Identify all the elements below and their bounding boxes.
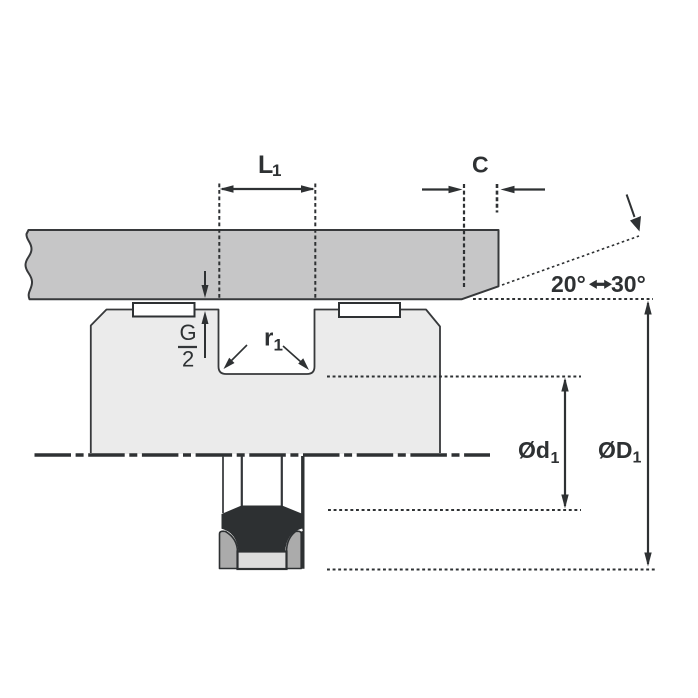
svg-text:G: G xyxy=(180,320,197,345)
C extension line right (dashed, short) xyxy=(496,184,499,213)
svg-text:L: L xyxy=(258,151,273,179)
svg-text:1: 1 xyxy=(551,450,560,467)
r1 leader arrow left (to groove bottom-left radius) xyxy=(230,345,247,362)
right back-up ring (white strip) xyxy=(339,303,400,317)
C extension line left (dashed, passes through bar) xyxy=(463,184,465,287)
r1 leader arrow right (to groove bottom-right radius) xyxy=(283,346,301,362)
svg-text:1: 1 xyxy=(274,336,283,355)
seal bore line right (thick) xyxy=(301,456,304,569)
chamfer angle dotted leader (diagonal) xyxy=(502,236,639,285)
Ød1 dimension line with arrowheads xyxy=(564,380,566,506)
seal elastomer body (dark) xyxy=(222,506,305,553)
double arrow symbol ↔ xyxy=(589,280,612,289)
anti-extrusion cap left (gray) xyxy=(220,531,238,568)
L1 dimension line with outward arrowheads xyxy=(222,188,313,190)
L1 extension line right (dashed) xyxy=(314,184,316,300)
C dimension arrows (pointing inward) xyxy=(422,188,450,190)
seal bore line left (below centerline) xyxy=(222,456,224,513)
G/2 lower arrow (pointing up at block surface) xyxy=(204,324,206,358)
svg-text:r: r xyxy=(264,325,273,352)
Ød1 bottom dotted extension line xyxy=(328,509,581,511)
bar bottom dotted extension line (OD reference) xyxy=(473,298,653,300)
seal inner line right xyxy=(281,456,283,506)
svg-text:ØD: ØD xyxy=(598,437,633,463)
L1 extension line left (dashed) xyxy=(218,184,220,300)
anti-extrusion cap right (gray) xyxy=(287,531,302,568)
white relief arc right (between body and cap) xyxy=(287,530,303,552)
svg-text:2: 2 xyxy=(182,347,194,372)
left back-up ring (white strip) xyxy=(133,303,195,317)
ØD1 bottom dotted extension line xyxy=(327,569,655,571)
piston block outline (left edge, chamfers, top surface, groove, right edge; no bottom edge) xyxy=(91,310,440,454)
Ød1 top dotted extension line (groove root) xyxy=(327,376,581,378)
svg-text:20°: 20° xyxy=(551,271,586,297)
svg-text:1: 1 xyxy=(633,450,642,467)
centerline (dash-dot axis) xyxy=(35,453,491,456)
seal heel plate (light gray bottom rectangle) xyxy=(238,552,287,570)
svg-text:1: 1 xyxy=(272,161,281,180)
svg-text:C: C xyxy=(472,152,489,178)
seal inner line left xyxy=(241,456,243,506)
G/2 upper arrow (pointing down at bar bottom) xyxy=(204,271,206,286)
ØD1 dimension line with arrowheads xyxy=(647,303,649,564)
white relief arc left (between body and cap) xyxy=(221,530,238,552)
svg-text:Ød: Ød xyxy=(518,437,550,463)
chamfer angle pointer arrow xyxy=(627,195,635,218)
piston block fill (light gray, with central groove and chamfered top corners) xyxy=(91,310,440,455)
svg-text:30°: 30° xyxy=(611,271,646,297)
cylinder bar (upper gray bar with wavy break left edge and chamfered right end) xyxy=(26,230,499,299)
